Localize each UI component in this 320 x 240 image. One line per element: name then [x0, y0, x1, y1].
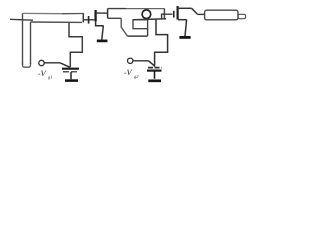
svg-text:g2: g2: [134, 74, 139, 79]
svg-text:-V: -V: [38, 69, 47, 78]
svg-text:-V: -V: [124, 68, 133, 77]
svg-text:g1: g1: [48, 75, 53, 80]
